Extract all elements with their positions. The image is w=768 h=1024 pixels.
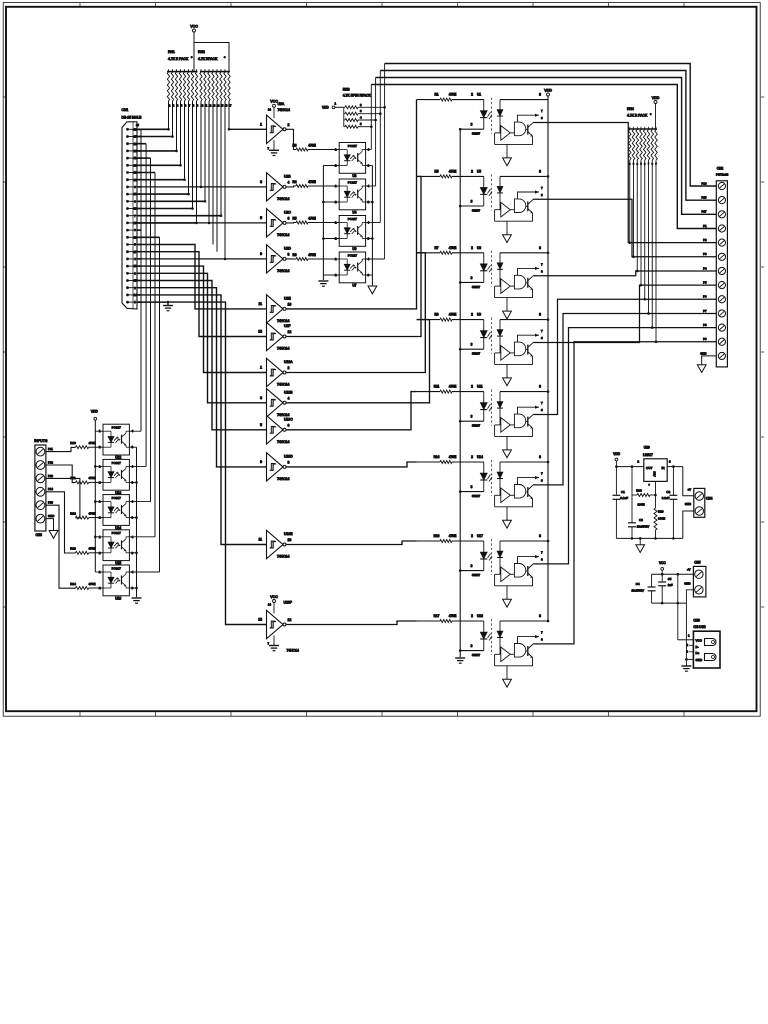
svg-text:74HC14: 74HC14 [277, 413, 290, 417]
svg-text:2: 2 [471, 246, 473, 250]
svg-text:8: 8 [288, 460, 290, 464]
svg-text:6N137: 6N137 [472, 132, 481, 136]
svg-text:PC817: PC817 [348, 253, 358, 257]
svg-text:4.7K R PACK: 4.7K R PACK [168, 57, 189, 61]
svg-text:74HC14: 74HC14 [278, 108, 291, 112]
svg-text:VCC: VCC [190, 24, 198, 28]
svg-text:INPUTS: INPUTS [34, 439, 48, 443]
svg-text:P12: P12 [48, 460, 53, 464]
svg-text:U7: U7 [352, 283, 356, 287]
svg-text:P9: P9 [703, 337, 707, 341]
svg-text:470E: 470E [88, 582, 95, 586]
svg-text:2: 2 [471, 614, 473, 618]
svg-text:P14: P14 [702, 181, 707, 185]
svg-text:VCC: VCC [696, 639, 703, 643]
svg-text:P2: P2 [703, 238, 707, 242]
svg-text:R19: R19 [658, 510, 664, 514]
svg-text:LM317: LM317 [643, 453, 653, 457]
svg-text:U18: U18 [477, 614, 483, 618]
svg-text:11: 11 [258, 302, 262, 306]
svg-text:2: 2 [471, 534, 473, 538]
svg-text:74HC14: 74HC14 [277, 477, 290, 481]
svg-text:PC817: PC817 [112, 496, 122, 500]
svg-text:OUT: OUT [646, 466, 653, 470]
svg-text:0.1uF: 0.1uF [662, 496, 670, 500]
svg-text:P13: P13 [48, 474, 53, 478]
svg-text:U2B: U2B [284, 174, 291, 178]
svg-text:U2F: U2F [284, 324, 290, 328]
svg-text:U2A: U2A [278, 102, 285, 106]
svg-text:GND: GND [700, 351, 706, 355]
svg-text:12: 12 [288, 618, 292, 622]
svg-text:U3: U3 [352, 174, 356, 178]
svg-text:R10: R10 [70, 441, 76, 445]
svg-text:ADJ: ADJ [653, 471, 657, 477]
svg-text:CN2: CN2 [717, 166, 724, 170]
svg-text:U19E: U19E [284, 532, 293, 536]
svg-text:3: 3 [471, 644, 473, 648]
svg-text:74HC14: 74HC14 [277, 440, 290, 444]
svg-text:600E: 600E [658, 517, 665, 521]
svg-text:+V: +V [688, 487, 692, 491]
svg-text:4.7K R PACK: 4.7K R PACK [627, 114, 648, 118]
svg-text:74HC14: 74HC14 [277, 555, 290, 559]
svg-text:C4: C4 [636, 582, 640, 586]
svg-text:R11: R11 [434, 385, 440, 389]
svg-text:R9: R9 [434, 313, 438, 317]
svg-text:2: 2 [288, 366, 290, 370]
svg-text:P4: P4 [703, 266, 707, 270]
svg-text:CN5: CN5 [694, 561, 701, 565]
svg-text:6N137: 6N137 [472, 352, 481, 356]
svg-text:GND: GND [696, 658, 704, 662]
svg-text:4.7K SPIN RPACK: 4.7K SPIN RPACK [343, 94, 372, 98]
svg-text:VDD: VDD [322, 105, 329, 109]
svg-text:3: 3 [471, 485, 473, 489]
svg-text:0.1uF: 0.1uF [620, 496, 628, 500]
svg-text:P15: P15 [48, 501, 53, 505]
svg-text:C1: C1 [621, 490, 625, 494]
svg-text:8: 8 [539, 313, 541, 317]
svg-text:8: 8 [539, 385, 541, 389]
svg-text:8: 8 [539, 534, 541, 538]
svg-text:P17: P17 [702, 210, 707, 214]
svg-text:6: 6 [288, 216, 290, 220]
svg-text:9: 9 [260, 252, 262, 256]
svg-text:U4: U4 [352, 210, 356, 214]
svg-text:470E: 470E [449, 169, 456, 173]
svg-text:VDD: VDD [91, 410, 98, 414]
svg-text:8: 8 [539, 169, 541, 173]
svg-text:C2: C2 [666, 490, 670, 494]
svg-text:6N137: 6N137 [472, 494, 481, 498]
svg-text:200E: 200E [637, 503, 644, 507]
svg-text:PC817: PC817 [112, 531, 122, 535]
svg-text:470E: 470E [88, 511, 95, 515]
svg-text:2: 2 [288, 123, 290, 127]
svg-text:U8: U8 [477, 246, 481, 250]
svg-text:R20: R20 [636, 489, 642, 493]
svg-text:GND: GND [48, 514, 54, 518]
svg-text:8: 8 [539, 93, 541, 97]
svg-text:4.7K RPACK: 4.7K RPACK [198, 57, 218, 61]
svg-text:14: 14 [268, 107, 272, 111]
svg-text:4: 4 [288, 180, 290, 184]
svg-text:U17: U17 [477, 534, 483, 538]
svg-text:R5: R5 [434, 169, 438, 173]
svg-text:VCC: VCC [270, 100, 278, 104]
svg-text:P15: P15 [702, 196, 707, 200]
svg-text:U11: U11 [477, 385, 483, 389]
svg-text:13: 13 [258, 618, 262, 622]
svg-text:10uF/63V: 10uF/63V [631, 589, 644, 593]
svg-text:5: 5 [260, 423, 262, 427]
svg-text:470E: 470E [449, 246, 456, 250]
svg-text:DB-25 MALE: DB-25 MALE [122, 116, 143, 120]
svg-text:U1: U1 [477, 93, 481, 97]
svg-text:D-: D- [696, 645, 699, 649]
svg-text:R1: R1 [434, 93, 438, 97]
svg-text:CN1: CN1 [122, 108, 129, 112]
svg-text:6N137: 6N137 [472, 573, 481, 577]
svg-text:1: 1 [260, 366, 262, 370]
svg-text:C3: C3 [639, 518, 643, 522]
svg-text:8: 8 [539, 246, 541, 250]
svg-text:U2C: U2C [284, 210, 291, 214]
svg-text:6N137: 6N137 [472, 285, 481, 289]
svg-text:2: 2 [471, 93, 473, 97]
svg-text:P3: P3 [703, 252, 707, 256]
svg-text:R12: R12 [70, 511, 76, 515]
svg-text:3: 3 [471, 415, 473, 419]
svg-text:U19A: U19A [284, 360, 293, 364]
svg-text:6N137: 6N137 [472, 653, 481, 657]
svg-text:PC817: PC817 [348, 144, 358, 148]
svg-text:3: 3 [471, 199, 473, 203]
svg-text:RN3: RN3 [343, 88, 350, 92]
svg-text:12: 12 [288, 330, 292, 334]
svg-text:GND: GND [684, 582, 690, 586]
svg-text:U5: U5 [477, 169, 481, 173]
svg-text:470E: 470E [88, 441, 95, 445]
svg-text:2: 2 [471, 455, 473, 459]
svg-text:RN1: RN1 [168, 50, 175, 54]
svg-text:VDD: VDD [613, 452, 620, 456]
svg-text:P8: P8 [703, 323, 707, 327]
svg-text:1uF: 1uF [668, 583, 673, 587]
svg-text:P7: P7 [703, 309, 707, 313]
svg-text:R16: R16 [434, 534, 440, 538]
svg-text:U2D: U2D [284, 246, 291, 250]
svg-text:1: 1 [260, 122, 262, 126]
svg-text:CN-USB: CN-USB [693, 625, 705, 629]
svg-text:470E: 470E [449, 534, 456, 538]
svg-text:P6: P6 [703, 295, 707, 299]
svg-text:9: 9 [260, 460, 262, 464]
svg-text:R17: R17 [434, 614, 440, 618]
svg-text:U19F: U19F [284, 601, 292, 605]
svg-text:470E: 470E [88, 476, 95, 480]
svg-text:3: 3 [471, 276, 473, 280]
svg-text:6N137: 6N137 [472, 208, 481, 212]
svg-text:470E: 470E [88, 547, 95, 551]
svg-text:470E: 470E [449, 614, 456, 618]
svg-text:74HC14: 74HC14 [277, 269, 290, 273]
svg-text:470E: 470E [449, 313, 456, 317]
svg-text:PC817: PC817 [112, 461, 122, 465]
svg-text:470E: 470E [308, 217, 315, 221]
svg-text:U16: U16 [115, 596, 121, 600]
svg-text:P1: P1 [703, 224, 707, 228]
svg-text:470E: 470E [308, 180, 315, 184]
svg-text:470E: 470E [449, 93, 456, 97]
svg-text:8: 8 [288, 252, 290, 256]
svg-text:U6: U6 [352, 247, 356, 251]
svg-text:R4: R4 [292, 180, 296, 184]
svg-text:VDD: VDD [544, 88, 552, 92]
svg-text:U2E: U2E [284, 296, 291, 300]
svg-text:+V: +V [687, 568, 691, 572]
svg-text:3: 3 [471, 564, 473, 568]
svg-text:R3: R3 [292, 144, 296, 148]
svg-text:U9: U9 [477, 313, 481, 317]
svg-text:6: 6 [288, 423, 290, 427]
svg-text:470E: 470E [449, 385, 456, 389]
svg-text:RN2: RN2 [198, 50, 205, 54]
svg-text:3: 3 [471, 343, 473, 347]
svg-text:74HC14: 74HC14 [277, 197, 290, 201]
svg-text:74HC14: 74HC14 [277, 319, 290, 323]
svg-text:R6: R6 [292, 253, 296, 257]
svg-text:R13: R13 [70, 547, 76, 551]
svg-text:VDD: VDD [652, 96, 660, 100]
svg-text:VCC: VCC [659, 561, 666, 565]
svg-text:3: 3 [471, 123, 473, 127]
svg-text:RN4: RN4 [627, 107, 634, 111]
svg-text:PBT1x13: PBT1x13 [716, 172, 729, 176]
svg-text:VCC: VCC [270, 595, 278, 599]
svg-text:PC817: PC817 [348, 180, 358, 184]
svg-text:U19D: U19D [284, 454, 293, 458]
svg-text:U19C: U19C [284, 417, 293, 421]
svg-text:P11: P11 [48, 447, 53, 451]
svg-text:10: 10 [288, 538, 292, 542]
svg-text:PC817: PC817 [112, 426, 122, 430]
svg-text:10uF/63V: 10uF/63V [637, 524, 650, 528]
svg-text:5: 5 [260, 216, 262, 220]
svg-text:14: 14 [268, 603, 272, 607]
svg-text:D+: D+ [696, 651, 700, 655]
svg-text:CN3: CN3 [36, 533, 43, 537]
svg-text:U14: U14 [477, 455, 483, 459]
svg-text:8: 8 [539, 455, 541, 459]
svg-text:10: 10 [288, 302, 292, 306]
svg-text:74HC14: 74HC14 [277, 383, 290, 387]
svg-text:GND: GND [685, 502, 691, 506]
svg-text:C5: C5 [668, 577, 672, 581]
svg-text:U10: U10 [644, 446, 650, 450]
svg-text:P14: P14 [48, 487, 53, 491]
svg-text:CN4: CN4 [706, 497, 713, 501]
svg-text:8: 8 [539, 614, 541, 618]
svg-text:470E: 470E [308, 253, 315, 257]
svg-text:PC817: PC817 [112, 566, 122, 570]
svg-text:R5: R5 [292, 217, 296, 221]
svg-text:470E: 470E [449, 455, 456, 459]
svg-text:74HC14: 74HC14 [277, 347, 290, 351]
svg-text:2: 2 [471, 385, 473, 389]
svg-text:74HC14: 74HC14 [277, 233, 290, 237]
svg-text:3: 3 [260, 180, 262, 184]
svg-text:PC817: PC817 [348, 217, 358, 221]
svg-text:R7: R7 [434, 246, 438, 250]
svg-text:4: 4 [288, 396, 290, 400]
svg-text:13: 13 [258, 330, 262, 334]
svg-text:CN6: CN6 [693, 619, 700, 623]
svg-text:11: 11 [258, 538, 262, 542]
svg-text:IN: IN [662, 466, 665, 470]
svg-text:R14: R14 [434, 455, 440, 459]
svg-text:2: 2 [471, 313, 473, 317]
svg-text:3: 3 [260, 396, 262, 400]
svg-text:6N137: 6N137 [472, 424, 481, 428]
svg-text:2: 2 [471, 169, 473, 173]
svg-text:R14: R14 [70, 582, 76, 586]
svg-text:74HC14: 74HC14 [287, 649, 300, 653]
svg-text:U19B: U19B [284, 390, 293, 394]
svg-text:P5: P5 [703, 281, 707, 285]
svg-text:470E: 470E [308, 144, 315, 148]
